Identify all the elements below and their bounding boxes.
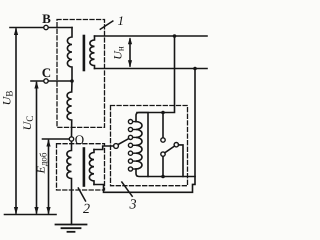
label 3 leader slash (122, 182, 132, 196)
node junction pole on rail (161, 175, 165, 179)
svg-text:3: 3 (128, 197, 136, 212)
measurement arrow UB (14, 28, 18, 215)
wire neutral 0 horizontal (43, 138, 70, 140)
transformer T1 secondary winding (90, 36, 95, 69)
wire pole C down to rail (162, 156, 164, 176)
dashed box 3 (111, 106, 188, 186)
svg-text:2: 2 (83, 202, 90, 217)
node junction bottom line (193, 67, 197, 71)
winding 3 top link and return conductor (136, 113, 148, 177)
label 2 leader slash (78, 188, 85, 201)
ground (56, 225, 87, 232)
wire output bottom (95, 68, 208, 70)
baseline (5, 214, 57, 216)
terminal 0 circle (69, 137, 73, 141)
dashed box 1 (57, 20, 105, 128)
svg-text:1: 1 (117, 13, 124, 28)
node junction on line to winding 3 (161, 111, 165, 115)
wire rail winding3 bottom (148, 176, 195, 178)
svg-text:O: O (75, 132, 84, 147)
node junction C on winding (70, 79, 74, 83)
wire contact B to rail (179, 145, 184, 177)
tap terminal circles of winding 3 (128, 120, 136, 172)
measurement arrow UC (34, 81, 38, 215)
switch arm C to B (165, 146, 175, 153)
wire output top (95, 35, 208, 37)
arrow Un (load voltage) (128, 37, 132, 67)
svg-text:B: B (42, 11, 51, 26)
selector pivot circle (114, 144, 119, 149)
transformer T1 primary winding lower section C-0 (67, 81, 72, 137)
wire feed from T2 secondary to pivot (94, 146, 114, 150)
transformer T2 core (83, 149, 86, 186)
svg-text:C: C (42, 65, 51, 80)
wire phase C horizontal (31, 80, 72, 82)
transformer T1 core (83, 36, 86, 70)
wire right return vertical (94, 69, 195, 193)
wire phase B horizontal (10, 27, 72, 29)
transformer T2 primary winding (67, 141, 72, 224)
regulating winding 3 loops (136, 122, 142, 169)
switch contact B circle (174, 143, 178, 147)
node junction top line (173, 34, 177, 38)
selector arm from pivot to tap 3 (118, 139, 129, 145)
terminal C circle (44, 79, 48, 83)
label 1 leader slash (100, 21, 113, 29)
dashed box 2 (57, 144, 105, 190)
switch pole C circle (161, 152, 165, 156)
wire drop to switch contact A (162, 113, 164, 138)
transformer T2 secondary winding (89, 150, 94, 185)
switch contact A circle (161, 138, 165, 142)
wire from top line down into box 3 (137, 36, 175, 113)
transformer T1 primary winding upper section B-C (67, 28, 72, 82)
terminal B circle (44, 25, 48, 29)
measurement arrow Edob (46, 139, 50, 215)
